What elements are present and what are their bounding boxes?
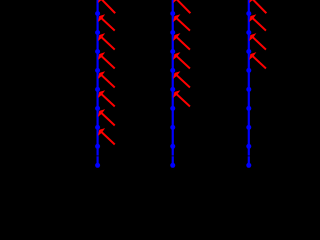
chain 1 wire (96, 0, 98, 168)
arrow chain1 k7 (102, 132, 114, 144)
arrow chain1 k0 (102, 0, 115, 13)
chain 1 node 4 (95, 68, 100, 73)
chain 1 segment gap artifact (96, 155, 99, 156)
chain 3 node 2 (246, 30, 251, 35)
arrow chain1 k4 (102, 75, 114, 87)
chain 3 wire (248, 0, 250, 168)
chain 1 node 9 (95, 163, 100, 168)
chain 3 node 7 (246, 125, 251, 130)
chain 2 node 1 (170, 11, 175, 16)
chain 2 node 9 (170, 163, 175, 168)
arrow chain2 k5 (177, 94, 189, 106)
chain 2 node 3 (170, 49, 175, 54)
chain 2 segment gap artifact (171, 155, 174, 156)
arrow chain1 k5 (102, 94, 114, 106)
chain 1 node 7 (95, 125, 100, 130)
chain 2 node 2 (170, 30, 175, 35)
arrow chain3 k3 (253, 56, 265, 68)
chain 3 node 4 (246, 68, 251, 73)
arrow chain1 k3 (102, 56, 114, 68)
chain 2 node 7 (170, 125, 175, 130)
chain 2 node 6 (170, 106, 175, 111)
chain 1 node 8 (95, 144, 100, 149)
arrow chain3 k1 (253, 18, 265, 30)
arrow chain2 k0 (177, 0, 190, 13)
arrow chain1 k1 (102, 18, 114, 30)
chain 1 node 5 (95, 87, 100, 92)
chain 2 node 8 (170, 144, 175, 149)
chain 3 node 5 (246, 87, 251, 92)
chain 1 node 3 (95, 49, 100, 54)
arrow chain2 k2 (177, 37, 189, 49)
chain 3 node 9 (246, 163, 251, 168)
chain 1 node 1 (95, 11, 100, 16)
arrow chain3 k0 (253, 0, 266, 13)
chain 1 node 6 (95, 106, 100, 111)
chain 3 node 8 (246, 144, 251, 149)
arrow chain2 k4 (177, 75, 189, 87)
arrow chain1 k2 (102, 37, 114, 49)
arrow chain2 k3 (177, 56, 189, 68)
chain 3 node 6 (246, 106, 251, 111)
chain 2 wire (172, 0, 174, 168)
chain 3 node 1 (246, 11, 251, 16)
arrow chain2 k1 (177, 18, 189, 30)
chain 3 segment gap artifact (248, 155, 251, 156)
chain 3 node 3 (246, 49, 251, 54)
arrow chain3 k2 (253, 37, 265, 49)
chain 1 node 2 (95, 30, 100, 35)
chain 2 node 5 (170, 87, 175, 92)
arrow chain1 k6 (102, 113, 114, 125)
chain 2 node 4 (170, 68, 175, 73)
